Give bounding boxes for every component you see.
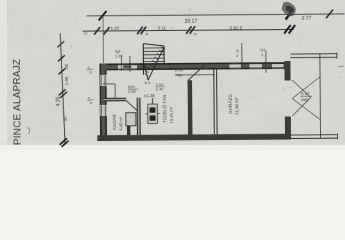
svg-text:29 17: 29 17 xyxy=(185,19,198,25)
chimney stem xyxy=(152,98,154,104)
svg-text:2,40: 2,40 xyxy=(156,86,165,91)
svg-text:PINCE ALAPRAJZ: PINCE ALAPRAJZ xyxy=(12,59,24,146)
wall top (exterior, x 99.5-290.5) xyxy=(99,62,290,70)
window G3 in garage top wall (x272-283.5) xyxy=(272,63,284,68)
partition wall A (kazan/tuzelo, x136.5-140) xyxy=(137,98,141,135)
end double tick on D2 at x=290 xyxy=(284,25,291,34)
svg-text:2,60: 2,60 xyxy=(128,89,137,94)
dimension line D1 (overall, upper) xyxy=(87,14,345,16)
paper background xyxy=(0,0,345,150)
tick on D1 at x=330 xyxy=(326,10,333,19)
overhang bottom line a xyxy=(291,134,337,136)
svg-text:15,40 m²: 15,40 m² xyxy=(169,106,174,123)
window W1 in top wall (x118-137, with centre sash bar) xyxy=(118,64,137,70)
tick on D3 y=71 xyxy=(58,68,65,74)
svg-text:«1: «1 xyxy=(84,32,88,36)
squiggle near title xyxy=(27,128,29,134)
overhang top line b xyxy=(290,56,336,58)
ticks on D2 at partition x=140/143.5 xyxy=(137,27,143,35)
chimney symbol xyxy=(148,104,158,124)
svg-text:1 07: 1 07 xyxy=(111,26,120,31)
partition wall H (horizontal, kazan top, y98-101) xyxy=(103,98,126,101)
stair hatch (lower area) xyxy=(144,66,148,69)
faint dash right edge xyxy=(338,65,344,68)
stair left edge xyxy=(142,44,144,75)
door label leader line xyxy=(177,74,215,76)
wall right lower piece xyxy=(285,117,291,140)
dim line through window W1 x=130 xyxy=(129,56,131,72)
stair cut diagonal (to bottom point) xyxy=(148,46,165,80)
ticks on D2 at partition x=189/192 xyxy=(186,26,192,34)
wall right upper piece (garage front) xyxy=(284,61,290,81)
tick on D1 at x=290 (bold) xyxy=(286,9,294,20)
overhang bottom line b xyxy=(291,137,337,139)
tick on D3 y=58 xyxy=(58,55,65,61)
overhang end cap top xyxy=(336,53,338,59)
svg-text:20: 20 xyxy=(64,64,69,70)
svg-text:avg: avg xyxy=(301,97,308,102)
lighter left margin strip xyxy=(0,0,7,150)
small wall return above kazan (y84 / x115) xyxy=(103,83,115,85)
svg-text:TÜZELÕ TÁR.: TÜZELÕ TÁR. xyxy=(161,93,167,123)
door leaf DK (kazan door diagonal) xyxy=(126,101,137,111)
svg-text:4,40 m²: 4,40 m² xyxy=(118,116,123,131)
stair right edge xyxy=(163,46,165,63)
door leaf DB (diagonal into garage) xyxy=(188,66,204,81)
garage door chevron right-apex lower arm xyxy=(292,97,311,116)
svg-text:40: 40 xyxy=(63,116,68,121)
wall left (exterior, y 63.6-141) xyxy=(99,64,107,141)
overhang end cap bottom xyxy=(336,134,338,139)
dim line between G1/G2 x=242 xyxy=(241,43,243,69)
svg-text:avg: avg xyxy=(175,72,181,77)
svg-text:1,10: 1,10 xyxy=(115,53,124,58)
svg-text:21,90 m²: 21,90 m² xyxy=(234,97,239,115)
svg-text:8 9: 8 9 xyxy=(145,80,151,85)
tick on D3 y=44 xyxy=(57,41,64,47)
window G2 in garage top wall (x249.5-262) xyxy=(249,63,262,68)
stair steps xyxy=(143,47,164,49)
ink smudge blob over D1 right tick xyxy=(281,2,295,17)
wall bottom (exterior, solid dark) xyxy=(97,134,291,141)
svg-text:±1,38: ±1,38 xyxy=(144,93,156,98)
dimension line D3 (vertical, left) xyxy=(60,33,65,145)
boiler flue stub xyxy=(127,126,130,135)
faint dim line inside corridor x=121.5 xyxy=(120,55,122,71)
svg-text:3 11: 3 11 xyxy=(158,25,167,30)
window G1 in garage top wall (x229.5-241) xyxy=(229,63,241,68)
svg-text:1.05: 1.05 xyxy=(64,76,69,85)
ticks on D2 left wall pair xyxy=(94,27,100,35)
garage door chevron right-apex upper arm xyxy=(292,80,311,98)
dimension line D2 (segments, lower) xyxy=(83,29,294,31)
dim line between G2/G3 x=266 xyxy=(265,51,267,73)
tick on D3 y=92 double slash xyxy=(59,89,66,95)
svg-text:5 81 5: 5 81 5 xyxy=(230,25,243,30)
svg-text:0 47: 0 47 xyxy=(301,91,310,96)
tick on D3 y=141 bold double slash xyxy=(60,138,68,145)
stair cut diagonal branch xyxy=(143,63,148,81)
garage door chevron left-apex lower arm xyxy=(292,98,320,120)
tick on D1 at x=103 xyxy=(99,11,107,21)
window W4 in left wall (y75-86) xyxy=(100,75,106,86)
boiler K (rect) xyxy=(126,113,136,126)
window W5 in left wall (y105-116) xyxy=(100,105,106,116)
chimney side ticks xyxy=(145,113,147,115)
extension line from D1 to wall at x=103.5 xyxy=(102,16,104,63)
svg-text:0 77: 0 77 xyxy=(302,16,312,22)
carport edge vertical x=320 xyxy=(319,54,322,138)
overhang top line a xyxy=(290,53,336,55)
thin wall C (x213.5-217) xyxy=(213,70,216,135)
garage door chevron left-apex upper arm xyxy=(292,77,320,99)
partition wall B (tuzelo/garage, x187.5-192) xyxy=(188,80,193,134)
stair top edge xyxy=(143,43,164,46)
svg-text:KAZÁN: KAZÁN xyxy=(111,115,117,130)
lighter bottom strip (paper edge) xyxy=(0,145,345,150)
